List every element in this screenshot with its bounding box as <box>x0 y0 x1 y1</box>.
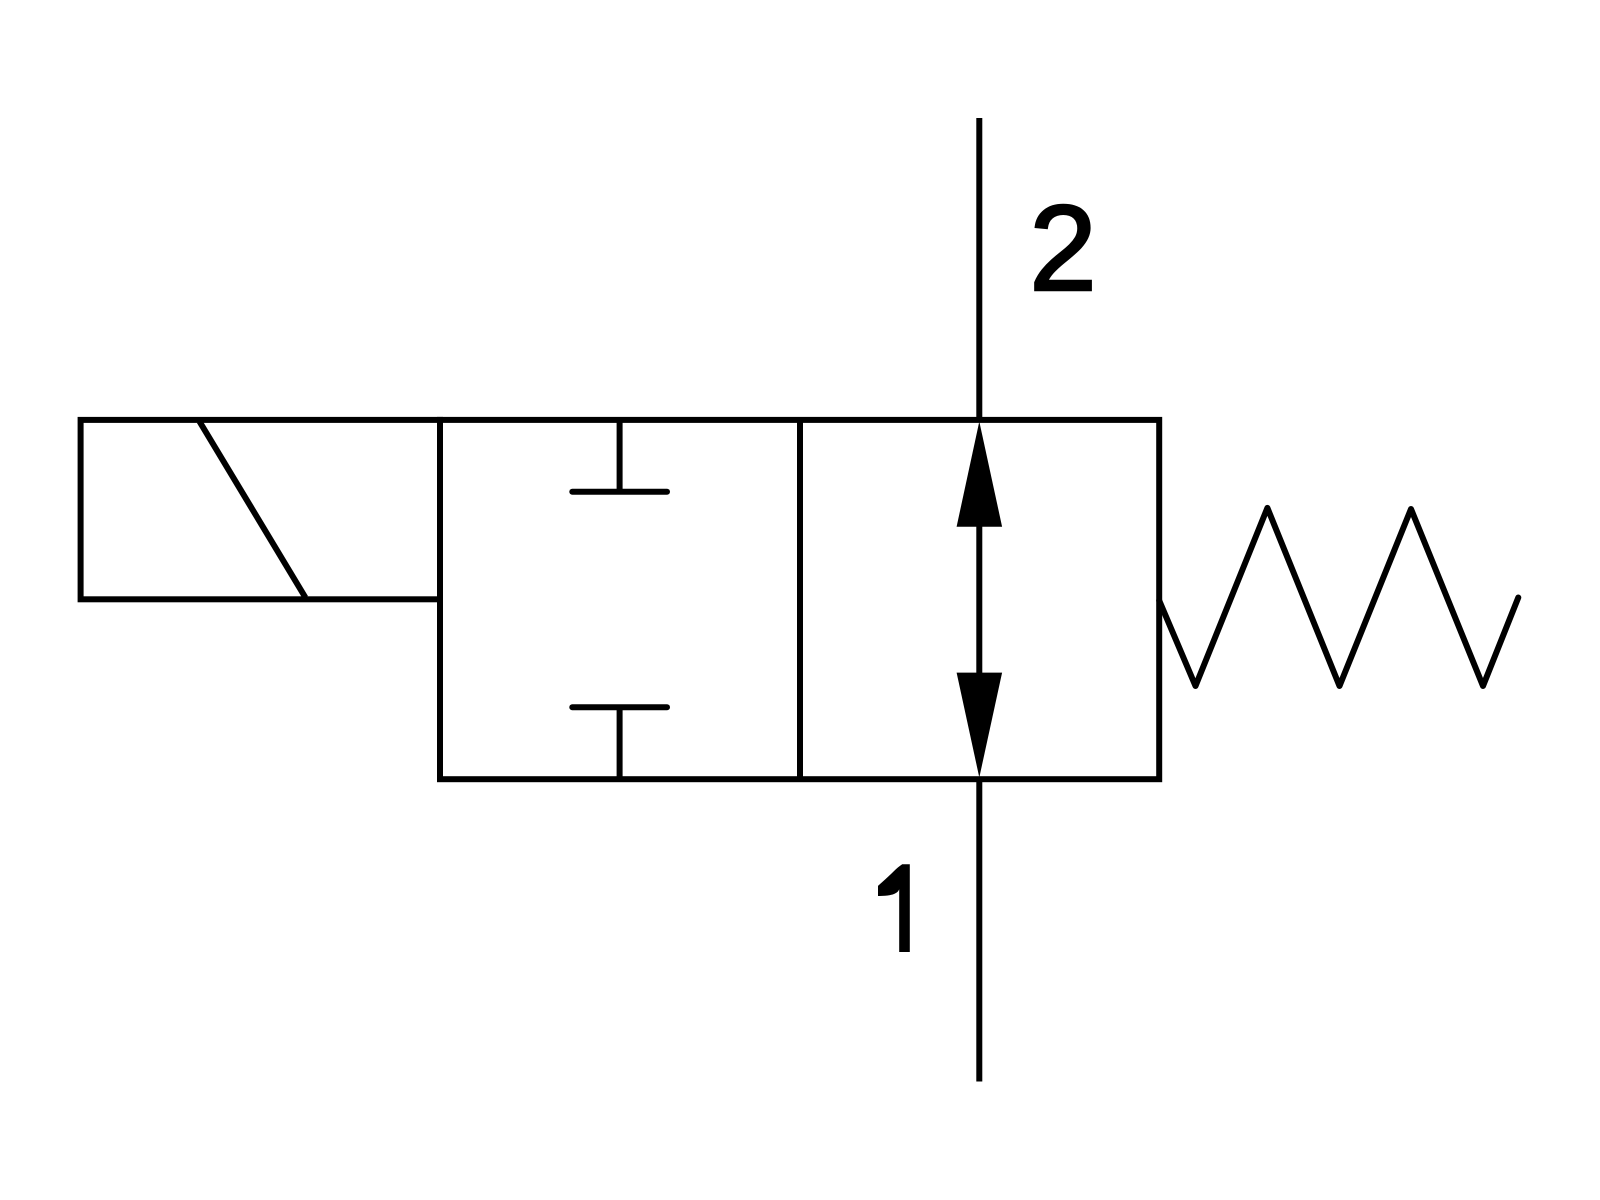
svg-text:2: 2 <box>1029 180 1097 316</box>
